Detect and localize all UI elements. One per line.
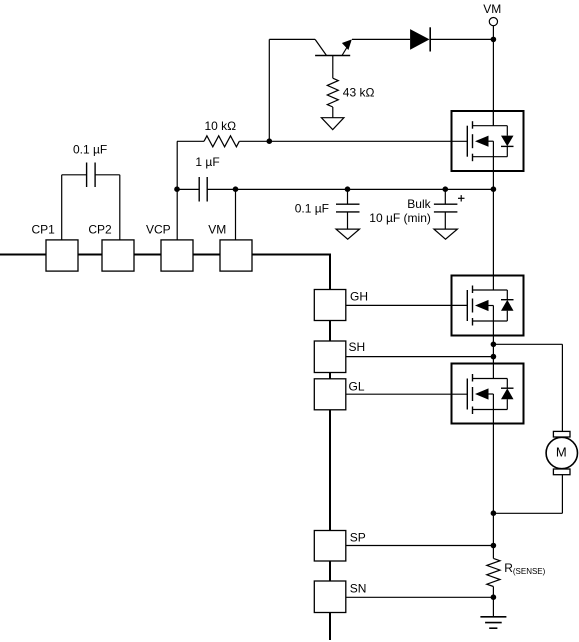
FET Q3 high-side (diode up) [452, 189, 524, 344]
svg-text:VM: VM [208, 223, 226, 237]
wire motor branch bottom [493, 475, 562, 514]
capacitor Bulk 10 uF (min) [369, 189, 464, 229]
pin VCP [146, 223, 193, 271]
resistor 10 kOhm [177, 119, 467, 147]
wire VM node down to Q2 drain [492, 39, 494, 126]
junction SH pin node [491, 354, 497, 360]
wire collector to gate node [269, 39, 315, 141]
wire SN to sense gnd node [346, 596, 494, 598]
FET Q4 low-side (diode up) [452, 364, 524, 514]
resistor R(SENSE) [487, 558, 546, 597]
wire SP to sense node [346, 545, 494, 547]
junction VM cap node [233, 186, 239, 192]
wire SH to node [346, 356, 494, 358]
wire VCP riser [176, 141, 178, 240]
pin CP2 [88, 223, 134, 271]
svg-text:10 kΩ: 10 kΩ [205, 119, 237, 133]
ground (bulk) [434, 229, 458, 239]
svg-text:GH: GH [350, 289, 368, 303]
wire SH node to Q4 drain [492, 344, 494, 378]
pin SH [314, 340, 365, 373]
motor M [546, 431, 577, 474]
svg-text:0.1 µF: 0.1 µF [73, 143, 107, 157]
diode D1 [352, 27, 493, 51]
junction Q2 source node [491, 186, 497, 192]
pin GH [314, 289, 368, 320]
wire GL to Q4 gate [346, 393, 468, 395]
svg-text:0.1 µF: 0.1 µF [295, 202, 329, 216]
pin GL [314, 379, 365, 410]
wire motor branch top [493, 344, 562, 431]
svg-text:M: M [556, 444, 567, 459]
svg-text:GL: GL [349, 380, 365, 394]
device edge [0, 255, 330, 641]
junction SP node [491, 543, 497, 549]
FET Q2 reverse protection (diode down) [452, 111, 524, 189]
svg-text:43 kΩ: 43 kΩ [343, 85, 375, 99]
junction VCP node [174, 186, 180, 192]
terminal VM [483, 2, 501, 39]
svg-text:SP: SP [350, 530, 366, 544]
svg-text:10 µF (min): 10 µF (min) [369, 211, 431, 225]
svg-text:CP1: CP1 [32, 223, 56, 237]
svg-text:VM: VM [483, 2, 501, 16]
svg-text:SN: SN [350, 581, 367, 595]
svg-text:CP2: CP2 [88, 223, 112, 237]
capacitor 0.1 uF (VM bypass) [295, 189, 360, 229]
wire VM bulk rail [236, 188, 494, 190]
capacitor 1 uF (VCP-VM) [177, 155, 236, 202]
ground (43 kOhm) [321, 118, 344, 130]
pin SP [314, 530, 366, 561]
svg-text:1 µF: 1 µF [195, 155, 219, 169]
transistor Q1 [315, 39, 352, 78]
svg-text:Bulk: Bulk [407, 197, 431, 211]
resistor 43 kOhm [327, 78, 374, 118]
junction VM node [491, 37, 497, 43]
junction SH motor node [491, 342, 497, 348]
pin SN [314, 581, 366, 613]
wire SP node to resistor [492, 513, 494, 558]
junction collector-gate node [267, 138, 273, 144]
wire GH to Q3 gate [346, 304, 468, 306]
wire VM box riser [235, 189, 237, 240]
capacitor 0.1 uF (CP1-CP2) [62, 143, 120, 240]
junction motor bottom node [491, 510, 497, 516]
junction bulk node [443, 186, 449, 192]
ground (0.1 uF) [336, 229, 360, 239]
junction 0.1uF node [345, 186, 351, 192]
junction SN node [491, 594, 497, 600]
pin CP1 [32, 223, 79, 271]
ground (sense) [480, 597, 506, 628]
pin VM [208, 223, 252, 271]
svg-text:SH: SH [349, 340, 366, 354]
svg-text:VCP: VCP [146, 223, 171, 237]
